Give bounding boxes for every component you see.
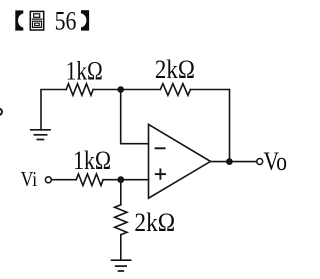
svg-text:2kΩ: 2kΩ xyxy=(134,208,175,237)
svg-text:1kΩ: 1kΩ xyxy=(66,56,103,85)
svg-text:56: 56 xyxy=(55,5,77,35)
svg-text:2kΩ: 2kΩ xyxy=(155,55,195,84)
svg-text:Vi: Vi xyxy=(21,167,38,191)
svg-text:1kΩ: 1kΩ xyxy=(73,146,111,175)
svg-text:Vo: Vo xyxy=(264,147,288,176)
